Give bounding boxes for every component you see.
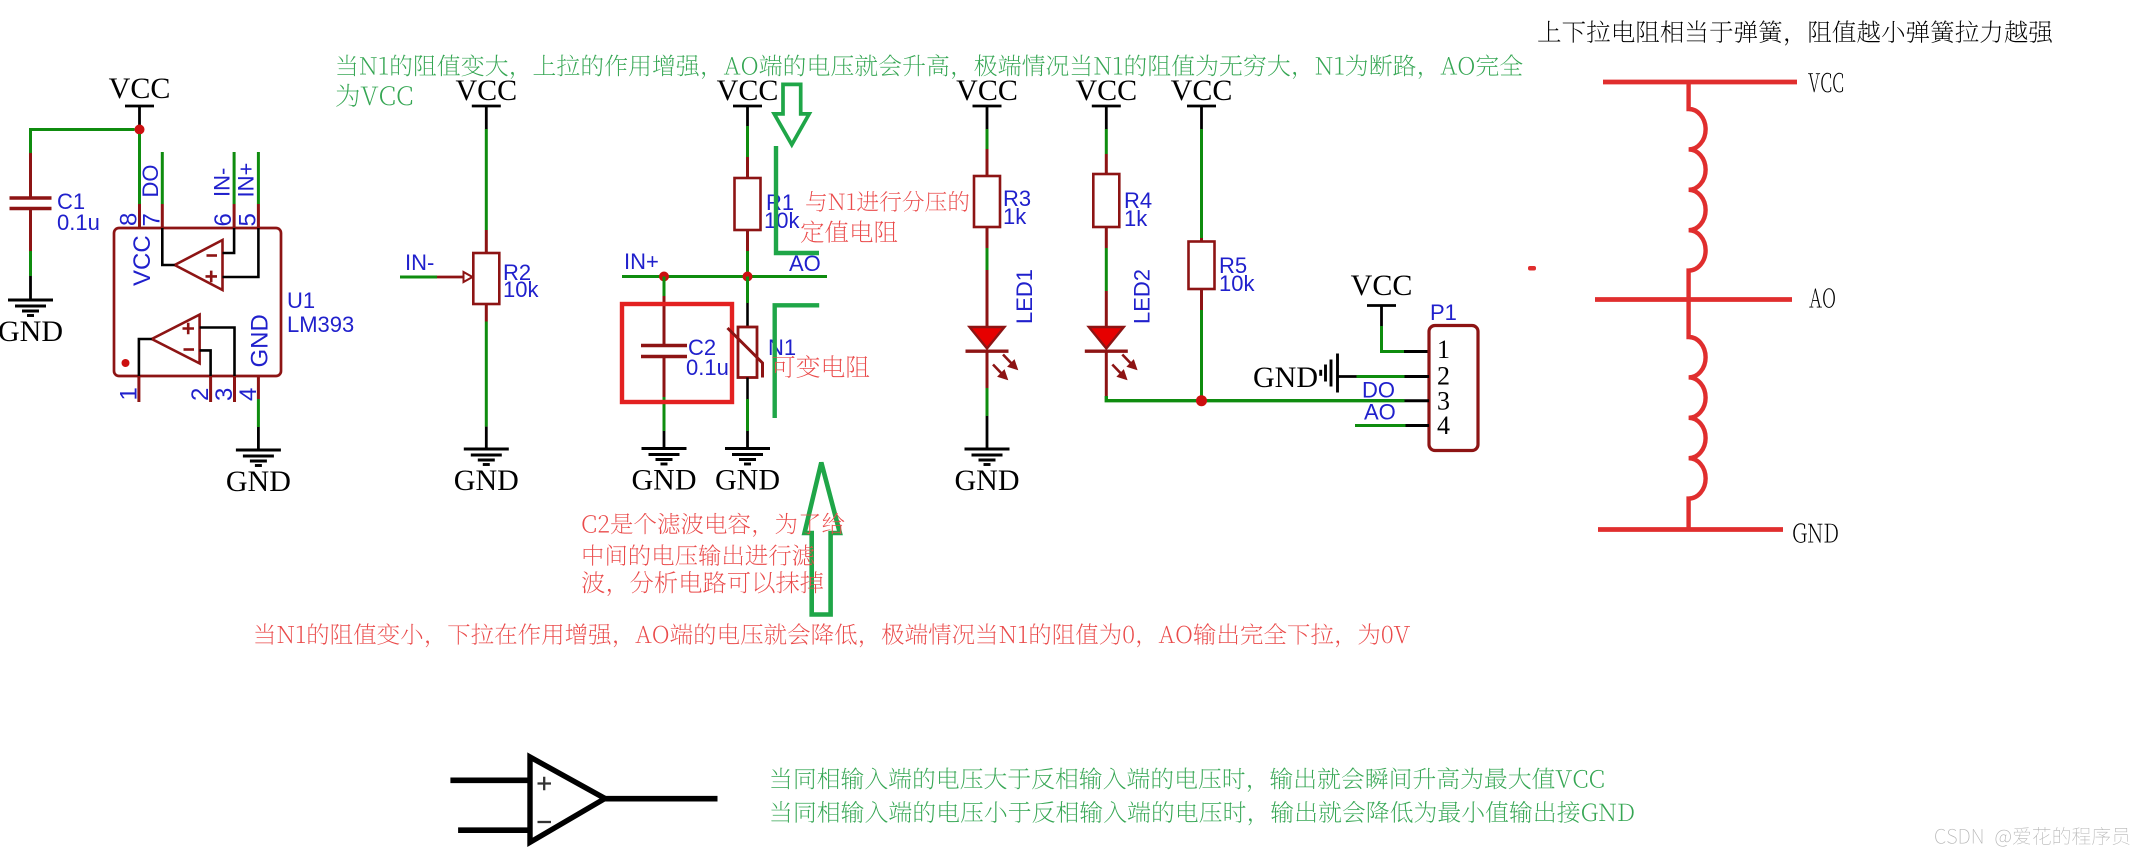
svg-text:VCC: VCC [109, 72, 171, 105]
wire pin2 to ground (black) [1338, 375, 1357, 378]
svg-text:GND: GND [247, 314, 274, 367]
svg-text:VCC: VCC [129, 235, 156, 286]
svg-text:VCC: VCC [717, 74, 779, 107]
U1B plus sign [183, 323, 195, 335]
ground (U1 pin4) [236, 450, 281, 466]
op-amp U1B triangle [152, 315, 200, 364]
wire C1 to ground (green) [29, 251, 32, 276]
comparator plus sign [538, 777, 552, 791]
wire bus to C2 (green) [663, 277, 666, 297]
connector P1 body [1429, 326, 1478, 451]
comparator output wire [605, 796, 718, 802]
svg-text:6: 6 [210, 213, 237, 226]
P1 pin4 stub (black) [1406, 424, 1430, 427]
annotation text green comparator line 2 [771, 801, 1633, 826]
svg-text:N1: N1 [768, 335, 796, 360]
resistor R3 body [974, 176, 1000, 227]
svg-text:GND: GND [955, 464, 1020, 497]
spring diagram title text [1538, 20, 2052, 45]
annotation text green comparator line 1 [771, 767, 1603, 792]
annotation text red C2 line 3 [582, 571, 823, 596]
ground (LED1) [965, 449, 1010, 465]
svg-text:IN+: IN+ [624, 249, 659, 274]
capacitor C2 [641, 346, 687, 357]
P1 pin3 stub (black) [1405, 399, 1430, 402]
annotation green down-arrow [774, 84, 809, 144]
U1A minus sign [207, 254, 218, 257]
svg-text:VCC: VCC [1351, 269, 1413, 302]
wire U1A non-inverting input to pin5 (black) [223, 228, 259, 277]
svg-text:GND: GND [226, 465, 291, 498]
stray red mark [1528, 266, 1536, 271]
pin 3 stub (maroon) [233, 376, 236, 402]
potentiometer R2 body [473, 253, 499, 304]
svg-text:GND: GND [1253, 361, 1318, 394]
annotation red box around C2 [622, 304, 732, 402]
ground (C1) [8, 300, 53, 316]
annotation green bracket (R1) [776, 146, 819, 253]
ground (R2) [464, 449, 509, 465]
svg-text:5: 5 [235, 213, 262, 226]
svg-text:VCC: VCC [455, 74, 517, 107]
wire pin4 ground stub (black) [257, 427, 260, 450]
svg-text:0.1u: 0.1u [57, 210, 100, 235]
wire DO net (green) [161, 152, 164, 204]
wire pin2 (green) [1357, 375, 1405, 378]
LED1 ground stub (black) [986, 416, 989, 449]
wire VCC to R5 (green) [1200, 129, 1203, 238]
wire VCC to C1 (green) [31, 130, 135, 154]
wire IN- net (green) [233, 152, 236, 204]
svg-text:LED1: LED1 [1012, 269, 1037, 324]
spring diagram AO rail [1595, 297, 1792, 302]
R2 wiper lead (maroon) [437, 276, 463, 279]
annotation text green line 1 [337, 54, 1522, 79]
LED2 anode lead (maroon) [1105, 291, 1108, 327]
variable resistor N1 body [738, 327, 757, 378]
wire U1B output to pin1 (black) [139, 339, 152, 376]
pin 5 stub (maroon) [257, 204, 260, 228]
wire U1B non-inverting to pin3 (black) [200, 328, 235, 377]
ground (N1) [725, 449, 770, 465]
comparator minus sign [538, 821, 552, 823]
wire VCC to R4 (green) [1105, 129, 1108, 154]
svg-text:IN+: IN+ [234, 163, 259, 198]
wire bus to N1 (green) [746, 277, 749, 304]
U1A plus sign [206, 271, 218, 283]
node junction C2/bus [659, 272, 669, 282]
N1 top lead (black) [746, 303, 749, 327]
wire VCC to R1 (green) [746, 126, 749, 157]
svg-text:AO: AO [1364, 400, 1396, 425]
wire R3-LED1 (green) [986, 248, 989, 270]
pin 2 stub (maroon) [209, 376, 212, 402]
svg-text:1: 1 [116, 387, 143, 400]
R2 bottom lead (maroon) [485, 304, 488, 322]
R5 bottom lead (maroon) [1200, 289, 1203, 310]
C2 ground stub (black) [663, 431, 666, 449]
wire C2 to ground (green) [663, 397, 666, 431]
svg-text:10k: 10k [764, 208, 800, 233]
wire VCC stub to junction [138, 126, 141, 130]
svg-text:P1: P1 [1430, 300, 1457, 325]
LED1 cathode lead (maroon) [986, 351, 989, 388]
LED LED1 [966, 327, 1018, 380]
power symbol VCC (R4) [1092, 106, 1121, 129]
svg-text:4: 4 [235, 388, 262, 401]
svg-text:IN-: IN- [405, 250, 434, 275]
C2 bottom lead (maroon) [663, 357, 666, 398]
svg-text:1k: 1k [1124, 206, 1148, 231]
annotation text red (R1 divider) line 1 [806, 191, 969, 212]
wire R1 to bus (green) [746, 251, 749, 277]
wire IN+ net (green) [257, 152, 260, 204]
wire IN+ bus (green) [622, 275, 827, 278]
wire VCC to R2 (green) [485, 129, 488, 230]
wire VCC to R3 (green) [986, 129, 989, 149]
svg-text:GND: GND [0, 315, 63, 348]
op-amp U1 body (LM393 box) [114, 228, 281, 376]
wire R5 to DO node (green) [1200, 310, 1203, 398]
pin 7 stub (maroon) [161, 204, 164, 228]
R2 top lead (maroon) [485, 230, 488, 253]
svg-text:VCC: VCC [1075, 74, 1137, 107]
resistor R4 body [1093, 174, 1119, 227]
svg-text:7: 7 [139, 213, 166, 226]
wire C1 ground stub (black) [29, 276, 32, 300]
svg-text:GND: GND [454, 464, 519, 497]
svg-text:10k: 10k [503, 277, 539, 302]
spring label VCC [1808, 73, 1843, 93]
svg-text:VCC: VCC [1171, 74, 1233, 107]
wire R4-LED2 (green) [1105, 248, 1108, 291]
ground (C2) [642, 449, 687, 465]
pin 1 stub (maroon) [137, 376, 140, 402]
P1 pin1 stub (black) [1404, 350, 1429, 353]
svg-text:4: 4 [1437, 411, 1450, 440]
wire C1 bottom lead (maroon) [29, 209, 32, 252]
svg-text:LM393: LM393 [287, 312, 354, 337]
resistor R5 body [1189, 242, 1215, 290]
spring label GND [1793, 523, 1838, 543]
LED2 cathode lead (maroon) [1105, 351, 1108, 396]
spring label AO [1809, 288, 1835, 308]
wire N1 to ground (green) [746, 399, 749, 431]
pin 4 stub (maroon) [257, 376, 260, 399]
watermark text [1935, 827, 2129, 847]
LED1 anode lead (maroon) [986, 270, 989, 327]
annotation text red (R1 divider) line 2 [801, 220, 897, 242]
svg-text:1k: 1k [1003, 204, 1027, 229]
R4 top lead (maroon) [1105, 154, 1108, 174]
R3 top lead (maroon) [986, 149, 989, 176]
op-amp U1A triangle [175, 240, 223, 290]
N1 bottom lead (black) [746, 378, 749, 400]
wire U1A output to pin7 (black) [162, 228, 174, 265]
comparator - input wire [458, 827, 530, 833]
svg-text:U1: U1 [287, 288, 315, 313]
wire VCC to P1 pin1 (green) [1382, 326, 1405, 352]
annotation text red C2 line 1 [582, 513, 844, 537]
svg-text:2: 2 [187, 388, 214, 401]
wire R2 to ground (green) [485, 322, 488, 427]
svg-text:10k: 10k [1219, 271, 1255, 296]
wire AO stub (green) [1355, 424, 1406, 427]
svg-text:LED2: LED2 [1130, 269, 1155, 324]
power symbol VCC (R3) [973, 106, 1002, 129]
ground (P1 pin2, sideways) [1321, 354, 1338, 393]
node junction DO net [1196, 395, 1207, 406]
R2 wiper arrow [464, 272, 473, 282]
R5 top lead (maroon) [1200, 238, 1203, 242]
annotation text red long line [255, 623, 1410, 647]
wire pin4 (green) [257, 399, 260, 427]
C2 top lead (maroon) [663, 296, 666, 345]
wire DO net (LED2/R5 to P1 pin3, green) [1106, 396, 1404, 401]
annotation green up-arrow [805, 463, 840, 615]
svg-text:GND: GND [715, 464, 780, 497]
R1 top lead (maroon) [746, 157, 749, 178]
power symbol VCC (U1/C1 net) [125, 106, 154, 126]
annotation text green line 2 [336, 84, 412, 107]
N1 ground stub (black) [746, 431, 749, 449]
power symbol VCC (R5) [1187, 106, 1216, 129]
svg-text:VCC: VCC [956, 74, 1018, 107]
R4 bottom lead (maroon) [1105, 227, 1108, 248]
annotation text red (N1) [772, 355, 869, 378]
svg-text:0.1u: 0.1u [686, 355, 729, 380]
comparator + input wire [450, 777, 530, 783]
pin 6 stub (maroon) [233, 204, 236, 228]
svg-text:GND: GND [632, 464, 697, 497]
spring upper (VCC-AO) [1689, 82, 1706, 300]
svg-text:1: 1 [1437, 335, 1450, 364]
pin 8 stub (maroon) [138, 204, 141, 228]
P1 pin2 stub (black) [1405, 375, 1430, 378]
R2 ground stub (black) [485, 427, 488, 449]
spring lower (AO-GND) [1689, 300, 1706, 530]
U1 pin1 marker dot [122, 359, 130, 367]
wire pin8 VCC (green) [138, 134, 141, 204]
R1 bottom lead (maroon) [746, 230, 749, 251]
comparator sketch triangle [530, 757, 605, 842]
annotation text red C2 line 2 [584, 544, 814, 566]
wire U1A inverting input to pin6 (black) [223, 228, 235, 253]
power symbol VCC (P1) [1367, 306, 1396, 327]
LED LED2 [1085, 327, 1137, 380]
R3 bottom lead (maroon) [986, 227, 989, 248]
svg-text:DO: DO [138, 165, 163, 198]
resistor R1 body [735, 178, 761, 230]
spring diagram VCC rail [1603, 80, 1797, 85]
U1B minus sign [184, 348, 195, 351]
wire C1 top lead (maroon) [29, 153, 32, 197]
wire IN- stub (green) [400, 276, 437, 279]
wire U1B inverting to pin2 (black) [200, 350, 211, 376]
spring diagram GND rail [1598, 527, 1783, 532]
capacitor C1 [10, 198, 52, 209]
N1 diagonal stroke [728, 328, 763, 378]
wire LED1 to ground (green) [986, 388, 989, 416]
node junction VCC/C1/pin8 [135, 125, 145, 135]
power symbol VCC (R1) [733, 106, 762, 126]
svg-text:IN-: IN- [210, 168, 235, 197]
node junction N1/bus [743, 272, 753, 282]
power symbol VCC (R2) [472, 106, 501, 129]
annotation green bracket (N1) [775, 305, 820, 418]
